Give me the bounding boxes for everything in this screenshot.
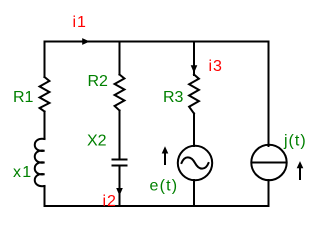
wire branch3 upper xyxy=(193,42,195,76)
arrow head e(t) xyxy=(162,146,169,153)
current source j(t) xyxy=(251,145,286,180)
wire bottom horizontal xyxy=(45,205,269,207)
wire branch4 upper xyxy=(268,42,270,147)
wire branch4 lower xyxy=(268,180,270,206)
current source j(t) bar xyxy=(252,162,287,164)
capacitor X2 xyxy=(113,160,127,166)
svg-text:i3: i3 xyxy=(209,58,223,75)
resistor R2 xyxy=(115,75,125,111)
svg-text:X2: X2 xyxy=(87,133,107,150)
svg-text:x1: x1 xyxy=(13,164,32,181)
svg-text:i1: i1 xyxy=(73,14,87,31)
wire left branch upper xyxy=(44,42,46,78)
svg-text:R2: R2 xyxy=(88,73,109,90)
arrow head j(t) xyxy=(297,161,304,168)
arrow e(t) shaft xyxy=(164,152,166,164)
inductor x1 xyxy=(35,139,45,186)
svg-text:R3: R3 xyxy=(163,89,184,106)
resistor R1 xyxy=(40,77,50,112)
arrow head i1 on top wire xyxy=(82,38,90,45)
wire top horizontal xyxy=(45,41,269,43)
svg-text:e(t): e(t) xyxy=(150,177,179,194)
wire branch3 middle xyxy=(193,114,195,147)
wire branch2 lower xyxy=(119,166,121,207)
arrow head i2 on branch2 xyxy=(116,188,123,196)
voltage source e(t) xyxy=(178,146,212,180)
arrow head i3 on branch3 xyxy=(191,65,198,73)
svg-text:j(t): j(t) xyxy=(283,132,307,149)
wire branch2 upper xyxy=(119,42,121,75)
wire branch3 lower xyxy=(193,180,195,206)
wire branch2 middle xyxy=(119,111,121,160)
svg-text:R1: R1 xyxy=(13,89,34,106)
sine wave of e(t) xyxy=(182,157,209,168)
arrow i2 shaft on branch2 xyxy=(119,166,121,191)
wire left branch lower xyxy=(44,186,46,206)
resistor R3 xyxy=(189,75,199,114)
svg-text:i2: i2 xyxy=(103,193,117,210)
wire left branch middle xyxy=(44,112,46,140)
arrow j(t) shaft xyxy=(299,167,301,179)
